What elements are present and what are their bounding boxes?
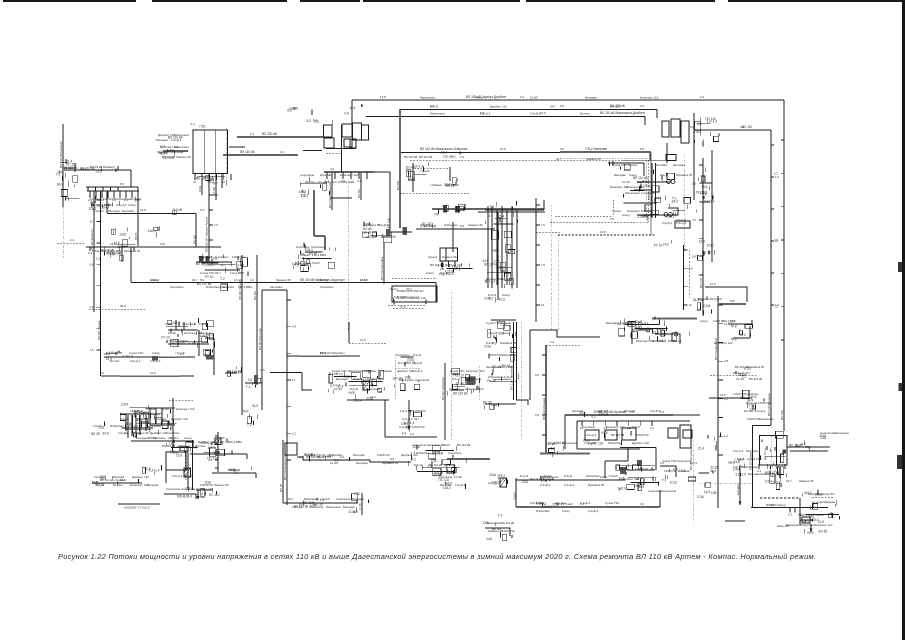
svg-text:115/37/10: 115/37/10: [232, 255, 245, 259]
svg-text:Избербаш: Избербаш: [92, 249, 106, 253]
wire bus y398: [709, 397, 752, 399]
labels y503 ряд2: [292, 505, 355, 509]
svg-text:0,4+j0,2: 0,4+j0,2: [662, 221, 673, 225]
wire gray vertical x546: [545, 345, 547, 453]
Мага box: [802, 517, 810, 523]
svg-text:ВЛ 35: ВЛ 35: [134, 232, 138, 240]
svg-text:нагр.: нагр.: [348, 391, 355, 395]
svg-text:Хунзах: Хунзах: [655, 327, 665, 331]
svg-text:3,5: 3,5: [207, 180, 211, 184]
wire vertical x166: [165, 460, 167, 483]
узел G Избербаш: [392, 357, 419, 391]
wire цепочка y262: [196, 261, 232, 263]
svg-text:10,4/2: 10,4/2: [185, 474, 193, 478]
Каспийск отпайки: [440, 261, 457, 271]
svg-text:Леваши 35: Леваши 35: [381, 235, 396, 239]
svg-text:0,4+j0,2: 0,4+j0,2: [168, 436, 179, 440]
svg-text:2,4: 2,4: [520, 95, 524, 99]
wire gray step x325: [324, 236, 326, 250]
Мхч подписи низ: [484, 296, 505, 302]
svg-text:Ирганай: Ирганай: [440, 483, 451, 487]
svg-text:8,4+j3: 8,4+j3: [350, 387, 358, 391]
wire Мхч column v4: [501, 206, 503, 288]
svg-text:ВЛ 110: ВЛ 110: [193, 235, 197, 244]
wire vertical pair x513: [513, 322, 515, 400]
svg-text:8,4+j3: 8,4+j3: [520, 474, 528, 478]
labels Дербент текст: [735, 365, 765, 369]
svg-text:12: 12: [775, 239, 779, 243]
svg-text:Кизилюрт 110: Кизилюрт 110: [714, 341, 733, 345]
svg-text:2СШ: 2СШ: [498, 266, 505, 270]
svg-text:Ачису: Ачису: [184, 436, 192, 440]
wire vertical x656: [655, 448, 657, 471]
svg-text:2,5/4: 2,5/4: [765, 480, 772, 484]
wire drop x390: [389, 172, 391, 232]
labels узелО ряд3: [648, 489, 677, 493]
svg-text:3,2+1,4: 3,2+1,4: [123, 355, 134, 359]
svg-text:2,5+j1,2: 2,5+j1,2: [598, 409, 609, 413]
svg-text:10,5: 10,5: [320, 351, 326, 355]
labels Тарки колонка2: [660, 173, 693, 177]
svg-text:1x6,3: 1x6,3: [148, 229, 156, 233]
svg-text:Избербаш: Избербаш: [416, 451, 430, 455]
svg-text:ВЛ 330: ВЛ 330: [396, 180, 400, 190]
svg-text:т.Гуниб: т.Гуниб: [92, 424, 102, 428]
wire Тарки loop: [668, 208, 678, 215]
узел y400 левый: [483, 401, 499, 410]
svg-text:Кизилюрт 110: Кизилюрт 110: [626, 185, 645, 189]
отводы x100: [90, 200, 101, 352]
svg-text:Ирганай: Ирганай: [320, 173, 331, 177]
компонент x152: [148, 226, 160, 237]
wire gray bus y155: [223, 154, 298, 156]
svg-text:ПС 110: ПС 110: [209, 493, 220, 497]
svg-text:Махачкала: Махачкала: [146, 424, 161, 428]
svg-text:Ачису: Ачису: [150, 278, 158, 282]
право столбец 440-540: [697, 433, 721, 499]
узел C аэропорт доп: [393, 296, 426, 309]
svg-text:13,8: 13,8: [820, 436, 826, 440]
wire Артем thick vertical: [340, 125, 342, 172]
Ботлих подписи: [91, 474, 138, 486]
подпись 2СШ y398: [354, 395, 374, 403]
svg-text:Махачкала: Махачкала: [304, 497, 319, 501]
dark transformer blobs: [403, 227, 408, 235]
svg-text:Гергебиль: Гергебиль: [448, 451, 462, 455]
svg-text:1СШ: 1СШ: [697, 495, 704, 499]
wire region dashed x613: [612, 200, 614, 216]
svg-text:ст.Манас: ст.Манас: [430, 183, 443, 187]
svg-text:Хунзах: Хунзах: [94, 475, 104, 479]
wire drop x361: [360, 172, 362, 200]
svg-text:Ботлих: Ботлих: [580, 112, 590, 116]
svg-text:Кизилюрт 110: Кизилюрт 110: [465, 387, 484, 391]
wire bus y376: [101, 375, 194, 377]
svg-text:т.Гуниб: т.Гуниб: [630, 425, 640, 429]
wire wire y520: [800, 519, 812, 521]
svg-text:ВЛ 35 кВ Бабаюрт: ВЛ 35 кВ Бабаюрт: [90, 165, 116, 169]
svg-text:0,8: 0,8: [689, 266, 693, 270]
labels Курах ряд2: [664, 469, 691, 473]
svg-text:Ирганай: Ирганай: [624, 409, 635, 413]
svg-text:0,4+j0,2: 0,4+j0,2: [402, 417, 413, 421]
svg-text:Кизилюрт 110: Кизилюрт 110: [814, 523, 833, 527]
svg-text:Ачису: Ачису: [426, 271, 434, 275]
wire corner y290: [262, 289, 287, 291]
надписи Чирюрт left: [159, 136, 183, 161]
узел N: [349, 492, 369, 514]
labels Аэропорт ряд: [390, 287, 412, 291]
svg-text:3,2+1,4: 3,2+1,4: [735, 473, 746, 477]
labels y398 подписи3: [744, 409, 766, 413]
ПС 330 кВ Чирюрт outer: [193, 130, 228, 174]
отводы x784: [774, 140, 784, 340]
wire dashdot x684: [683, 155, 685, 250]
svg-text:34,7: 34,7: [550, 105, 556, 109]
svg-text:ст.Манас: ст.Манас: [298, 253, 311, 257]
labels Даг Огни ряд: [786, 479, 814, 483]
шина y503 подписи: [294, 498, 323, 509]
svg-text:21,6: 21,6: [540, 111, 546, 115]
labels Азерб ряд: [820, 431, 849, 435]
svg-text:ВЛ 110 Ленинкент: ВЛ 110 Ленинкент: [328, 182, 332, 208]
svg-text:РУ 10: РУ 10: [488, 481, 497, 485]
svg-text:Ачису: Ачису: [562, 509, 570, 513]
svg-text:РУ 10: РУ 10: [487, 379, 496, 383]
svg-text:ст.Манас: ст.Манас: [746, 465, 759, 469]
hatch box x215: [215, 438, 221, 445]
svg-text:Дербент 110: Дербент 110: [305, 180, 322, 184]
svg-text:ВЛ 110: ВЛ 110: [357, 189, 361, 198]
svg-text:Махачкала: Махачкала: [399, 378, 414, 382]
svg-text:Белиджи: Белиджи: [336, 377, 348, 381]
svg-text:Т-1: Т-1: [488, 297, 493, 301]
wire wire y494: [164, 494, 196, 499]
labels Дербент подписи ряд: [733, 449, 759, 453]
svg-text:Сулак ГЭС: Сулак ГЭС: [129, 351, 144, 355]
wire ВЛ y504 левый: [118, 503, 160, 505]
svg-text:Буйнакск 35: Буйнакск 35: [676, 173, 693, 177]
wire corner x302: [302, 373, 312, 391]
wire left dashdot x63: [62, 207, 64, 258]
svg-text:112,4: 112,4: [600, 475, 607, 479]
svg-text:34,9: 34,9: [672, 200, 678, 204]
svg-text:ст.Манас: ст.Манас: [584, 441, 597, 445]
svg-text:1x6,3 МВА: 1x6,3 МВА: [370, 377, 384, 381]
svg-text:т.Гуниб: т.Гуниб: [488, 331, 498, 335]
svg-text:12: 12: [541, 303, 545, 307]
wire stub y338: [205, 337, 214, 339]
wire Мхч column v1: [487, 206, 489, 288]
svg-text:ВЛ 330 кВ Чирюрт-Артем: ВЛ 330 кВ Чирюрт-Артем: [205, 217, 209, 252]
svg-text:10,5: 10,5: [349, 106, 355, 110]
Самур доп: [803, 494, 840, 534]
labels Гоцатль110 ряд3: [414, 463, 455, 467]
svg-text:ТЭЦ Северная: ТЭЦ Северная: [585, 147, 607, 151]
svg-text:13,8: 13,8: [653, 331, 659, 335]
svg-text:Леваши 35: Леваши 35: [760, 472, 775, 476]
svg-text:0,4+j0,2: 0,4+j0,2: [412, 369, 423, 373]
отпайки Кизилюрт y415: [124, 415, 146, 435]
wire bus y480 Гуниб: [516, 479, 625, 481]
svg-text:34,7: 34,7: [192, 278, 198, 282]
dark blob цепочка b: [206, 256, 210, 262]
labels Дербент подписи ряд4: [748, 472, 775, 476]
wire bus y229: [416, 228, 495, 230]
svg-text:2,4: 2,4: [700, 95, 704, 99]
svg-text:ВЛ 330: ВЛ 330: [212, 186, 216, 196]
svg-text:8,4+j3: 8,4+j3: [96, 483, 104, 487]
svg-text:ВЛ 35: ВЛ 35: [819, 529, 828, 533]
svg-text:1x6,3 МВА: 1x6,3 МВА: [312, 253, 326, 257]
Ирганай unit 4: [668, 428, 678, 438]
svg-text:110 кВ: 110 кВ: [362, 230, 372, 234]
svg-text:Ачису: Ачису: [622, 213, 630, 217]
узел M доп: [408, 445, 466, 476]
svg-text:Сергокала: Сергокала: [336, 497, 351, 501]
scan blob right edge 1: [898, 262, 902, 272]
wire vertical x257: [256, 255, 258, 385]
wire drop at x657: [656, 110, 658, 119]
svg-text:Буйнакск 35: Буйнакск 35: [382, 461, 399, 465]
svg-text:т.Гуниб: т.Гуниб: [814, 513, 824, 517]
svg-text:т.Гуниб: т.Гуниб: [94, 209, 104, 213]
wire стр Гуниб y454: [190, 453, 247, 455]
wire цепочка y270: [205, 269, 240, 271]
svg-text:ВЛ 110 кВ: ВЛ 110 кВ: [162, 444, 175, 448]
svg-text:2,5+j1,2: 2,5+j1,2: [118, 431, 129, 435]
svg-text:Буйнакск 35: Буйнакск 35: [748, 365, 765, 369]
wire ТЭЦ y190: [634, 189, 652, 191]
svg-text:Ботлих: Ботлих: [110, 359, 120, 363]
отпайки шины y191: [88, 191, 140, 202]
Ирганай unit 2: [605, 430, 617, 440]
wire stub x349: [348, 322, 350, 343]
svg-text:ВЛ 35: ВЛ 35: [169, 422, 173, 430]
wire stub y198: [330, 197, 352, 199]
svg-text:ВЛ 110 Кизилюрт: ВЛ 110 Кизилюрт: [258, 327, 262, 350]
svg-text:110 кВ: 110 кВ: [172, 208, 182, 212]
svg-text:8,4+j3: 8,4+j3: [452, 377, 460, 381]
wire vertical x385: [384, 400, 386, 437]
svg-text:1СШ: 1СШ: [198, 185, 202, 192]
svg-text:Гергебиль: Гергебиль: [152, 436, 166, 440]
labels Чирюрт левые4: [157, 150, 183, 154]
svg-text:8,4+j3: 8,4+j3: [440, 271, 448, 275]
wire vertical x660: [659, 490, 661, 507]
svg-text:Махачкала: Махачкала: [486, 521, 501, 525]
labels Сулак подписи3: [170, 341, 196, 345]
wire bus y302: [400, 301, 436, 303]
svg-text:Леваши 35: Леваши 35: [698, 297, 713, 301]
svg-text:Сергокала: Сергокала: [166, 487, 181, 491]
svg-text:Дербент 110: Дербент 110: [490, 105, 507, 109]
wire bus y357 left: [104, 356, 195, 358]
svg-text:Белиджи: Белиджи: [606, 321, 618, 325]
svg-text:115: 115: [160, 242, 165, 246]
labels шина191 подписи2: [92, 203, 136, 207]
svg-text:21,6: 21,6: [110, 242, 116, 246]
svg-text:2,2: 2,2: [692, 181, 696, 185]
Дербент доп: [761, 431, 786, 466]
svg-text:0,4: 0,4: [200, 208, 204, 212]
labels y460 ряд: [305, 453, 418, 457]
labels Гергебиль ряд: [172, 474, 193, 478]
подпись y470: [229, 466, 252, 474]
отпайки Ирганай y421: [580, 421, 654, 430]
узел x230 y370: [227, 366, 242, 376]
wire Чирюрт internal v1: [203, 130, 205, 174]
svg-text:Ботлих: Ботлих: [196, 444, 206, 448]
wire dash y308: [393, 307, 425, 309]
svg-text:21,6: 21,6: [370, 395, 376, 399]
svg-text:10,4/2: 10,4/2: [330, 461, 338, 465]
svg-text:12: 12: [292, 378, 296, 382]
wire vertical x94: [93, 191, 95, 312]
svg-text:Леваши 35: Леваши 35: [276, 278, 291, 282]
svg-text:10,5: 10,5: [500, 147, 506, 151]
svg-text:Каспийск: Каспийск: [746, 449, 759, 453]
labels Гоцатль110 ряд2: [416, 451, 462, 455]
svg-text:Т-1: Т-1: [96, 257, 101, 261]
svg-text:Кизилюрт 110: Кизилюрт 110: [130, 483, 149, 487]
svg-text:Ачису: Ачису: [629, 173, 637, 177]
svg-text:10,4/2: 10,4/2: [454, 475, 462, 479]
labels верх шина2: [430, 105, 621, 109]
svg-text:0,8: 0,8: [535, 373, 539, 377]
Хунзах узел: [142, 465, 161, 474]
wire gray bus y152: [560, 151, 651, 153]
svg-text:14,6: 14,6: [704, 490, 710, 494]
svg-text:нагр.: нагр.: [492, 249, 499, 253]
svg-text:2,5+j1,2: 2,5+j1,2: [586, 433, 597, 437]
wire Дербент wire y447: [787, 446, 830, 448]
wire Артем label line y150: [303, 150, 322, 152]
wire wire y372: [270, 372, 302, 374]
svg-text:0,4+j0,2: 0,4+j0,2: [530, 112, 541, 116]
svg-text:Ирганай: Ирганай: [147, 483, 158, 487]
svg-text:0,4+j0,2: 0,4+j0,2: [305, 453, 316, 457]
svg-text:Т-1: Т-1: [775, 465, 780, 469]
wire corner x436: [435, 283, 437, 303]
svg-text:Леваши 35: Леваши 35: [157, 150, 172, 154]
svg-text:0,4+j0,2: 0,4+j0,2: [432, 451, 443, 455]
wire тик x247: [246, 454, 248, 459]
svg-text:0,4: 0,4: [357, 179, 361, 183]
wire bus y473: [212, 472, 256, 474]
svg-text:Сергокала: Сергокала: [648, 489, 663, 493]
wire boundary dashdot x348: [347, 186, 349, 330]
svg-text:Ирганай: Ирганай: [733, 371, 744, 375]
wire dash x689: [688, 250, 690, 298]
svg-text:0,4+j0,2: 0,4+j0,2: [580, 501, 591, 505]
отводы x546: [535, 355, 546, 435]
svg-text:Дербент 110: Дербент 110: [171, 417, 188, 421]
svg-text:108,4: 108,4: [711, 491, 719, 495]
Гоцатль доп: [619, 317, 668, 341]
labels Хив ряд: [486, 521, 514, 525]
wire Чирюрт internal dashdot: [226, 128, 228, 180]
wire gray bus y137: [237, 136, 323, 138]
svg-text:Сулак ГЭС: Сулак ГЭС: [605, 501, 620, 505]
labels Касумкент ряд2: [440, 483, 466, 487]
wire drop x131b: [130, 247, 132, 282]
svg-text:Ирганай: Ирганай: [343, 180, 354, 184]
svg-text:Леваши 35: Леваши 35: [488, 529, 503, 533]
svg-text:21,4: 21,4: [698, 447, 704, 451]
svg-text:ВЛ 110 кВ: ВЛ 110 кВ: [749, 377, 762, 381]
labels узелB ряд: [364, 223, 389, 227]
labels Тепловая ряд: [404, 155, 432, 159]
wire right vertical x771: [770, 130, 772, 425]
svg-text:13,8: 13,8: [380, 95, 386, 99]
svg-text:Сергокала: Сергокала: [415, 378, 430, 382]
svg-text:2СШ: 2СШ: [707, 243, 714, 247]
svg-text:1x6,3 МВА: 1x6,3 МВА: [800, 513, 814, 517]
wire Мхч column v7: [516, 210, 518, 288]
svg-text:ВЛ 110 кВ: ВЛ 110 кВ: [429, 463, 442, 467]
svg-text:Леваши 35: Леваши 35: [468, 223, 483, 227]
wire bus y441: [131, 440, 194, 442]
узел O x630: [618, 466, 657, 491]
wire wire y470: [625, 469, 655, 471]
svg-text:12: 12: [689, 303, 693, 307]
Гуниб кол доп: [489, 320, 517, 381]
svg-text:7,5: 7,5: [90, 348, 94, 352]
отводы x209: [209, 180, 218, 240]
svg-text:Махачкала: Махачкала: [420, 96, 435, 100]
wire wire y404: [485, 403, 516, 405]
ПС 330 кВ Артем section 1: [324, 125, 333, 137]
labels узелB ряд2: [366, 235, 396, 239]
labels право 300: [698, 297, 722, 301]
wire gray y459: [447, 458, 490, 460]
wire G dashed right: [478, 366, 480, 400]
svg-text:Гергебиль: Гергебиль: [166, 431, 180, 435]
Самур узел: [800, 504, 833, 535]
svg-text:2,5+j1,2: 2,5+j1,2: [366, 235, 377, 239]
отпайки Дербент y464: [757, 464, 785, 473]
svg-text:115/37/10: 115/37/10: [637, 180, 650, 184]
svg-text:10,4/2: 10,4/2: [442, 443, 450, 447]
wire left feeder x63: [62, 124, 64, 207]
svg-text:Ачису: Ачису: [128, 203, 136, 207]
wire vertical x287 Избербаш west: [286, 290, 288, 505]
отпайки Чирюрт y174: [193, 174, 231, 184]
svg-text:Белиджи: Белиджи: [353, 453, 365, 457]
Мхч колонка доп: [492, 213, 518, 285]
svg-text:Избербаш: Избербаш: [800, 523, 814, 527]
svg-text:ВЛ 110 кВ Бабаюрт: ВЛ 110 кВ Бабаюрт: [59, 141, 63, 168]
svg-text:8,9: 8,9: [200, 278, 204, 282]
svg-text:Белиджи: Белиджи: [736, 483, 740, 495]
svg-text:10,5: 10,5: [95, 169, 101, 173]
svg-text:Дербент 110: Дербент 110: [196, 487, 213, 491]
svg-text:ВЛ 110 кВ: ВЛ 110 кВ: [404, 155, 417, 159]
svg-text:Каспийск: Каспийск: [270, 285, 283, 289]
svg-text:34,7: 34,7: [786, 479, 792, 483]
wire vertical x199: [198, 330, 200, 356]
svg-text:35 кВ: 35 кВ: [456, 382, 464, 386]
svg-text:1x6,3 МВА: 1x6,3 МВА: [500, 365, 514, 369]
svg-text:2СШ: 2СШ: [484, 345, 491, 349]
svg-text:Т-2: Т-2: [220, 277, 225, 281]
svg-text:0,4+j0,2: 0,4+j0,2: [420, 223, 431, 227]
svg-text:Буйнакск 35: Буйнакск 35: [588, 483, 605, 487]
svg-text:Гуниб: Гуниб: [513, 492, 517, 500]
svg-text:0,4: 0,4: [640, 104, 644, 108]
svg-text:0,4+j0,2: 0,4+j0,2: [200, 331, 211, 335]
